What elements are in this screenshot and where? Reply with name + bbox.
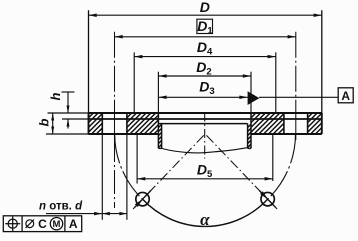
svg-text:b: b <box>37 118 52 126</box>
svg-text:D: D <box>200 0 210 15</box>
svg-text:M: M <box>53 219 61 230</box>
svg-text:n отв. d: n отв. d <box>39 201 83 213</box>
svg-text:α: α <box>200 210 210 229</box>
svg-text:A: A <box>69 217 78 231</box>
svg-text:A: A <box>341 89 350 103</box>
svg-text:C: C <box>38 217 47 231</box>
svg-text:h: h <box>48 92 63 100</box>
